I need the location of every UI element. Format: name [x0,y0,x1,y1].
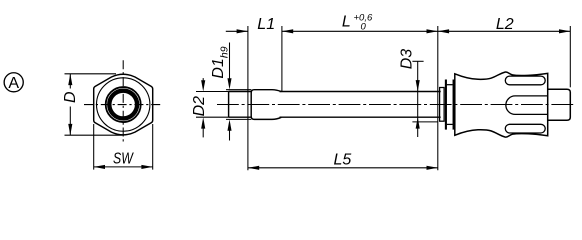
view label circle A [4,73,23,92]
svg-text:0: 0 [361,21,367,32]
dimension SW extension lines [94,124,153,170]
dimension D3 bottom tick [412,121,437,123]
dimension L2 left arrow [438,29,449,33]
bore outer circle [106,87,141,122]
flange left disc [445,80,447,130]
dimension SW arrows [94,165,153,169]
washer [440,88,445,122]
svg-text:D3: D3 [398,49,415,70]
knob end cylinder [548,89,571,120]
pin top edge [229,91,441,93]
dimension L5 left arrow [248,166,259,170]
dimension L5 line [248,167,438,169]
svg-text:D: D [62,91,79,103]
dimension D line [69,74,71,135]
extension line L right / L2 left / L5 right [437,26,439,170]
extension line L1 left / L5 left [247,26,249,170]
dimension D3 line [417,61,419,137]
dimension SW line [94,166,153,168]
chamfer circle [97,78,150,131]
node left-view horizontal centerline [84,104,160,106]
dimension D1 extension edges [226,90,251,120]
dimension L5 right arrow [427,166,438,170]
dimension D1 top arrow [229,43,231,86]
knob top groove [505,76,545,85]
dimension L line [282,30,570,32]
dimension L left arrow [282,29,293,33]
svg-text:D2: D2 [191,96,208,117]
pin left end cap [228,92,230,118]
dimension L right arrow [427,29,438,33]
bore chamfer ring [109,91,137,119]
dimension L2 right arrow [559,29,570,33]
dimension L1 left arrow [237,29,248,33]
extension line L2 right [569,26,571,87]
svg-text:D1h9: D1h9 [210,46,231,78]
svg-text:L1: L1 [257,16,275,33]
dimension D3 top arrow [416,80,420,91]
dimension L1 line [226,30,248,32]
dimension D2 top arrow [202,78,204,87]
dimension D arrows [68,74,72,135]
hex body outline (face view) [94,74,153,135]
svg-text:L: L [342,13,351,30]
extension line L1 right / L left [281,26,283,91]
pin bottom edge [229,116,441,118]
knob body outline [455,72,548,137]
dimension D2 extension edges [196,92,229,118]
dimension D3 top tick [412,60,423,62]
node left-view vertical centerline [122,60,124,141]
svg-text:SW: SW [113,150,134,167]
flange right disc [453,80,455,130]
dimension D2 bottom arrow [202,121,204,137]
dimension D extension lines [65,74,123,135]
dimension D1 bottom arrow [229,123,231,141]
svg-text:L2: L2 [496,16,514,33]
svg-text:A: A [8,75,19,92]
flange spacer top edge [447,84,453,86]
sleeve section D1 h9 [251,90,281,120]
flange spacer bottom edge [447,123,453,125]
dimension D3 bottom arrow [416,117,420,128]
knob middle groove [506,96,548,115]
svg-text:L5: L5 [334,152,352,169]
knob bottom groove [505,124,545,133]
node main-view centerline [217,104,576,106]
